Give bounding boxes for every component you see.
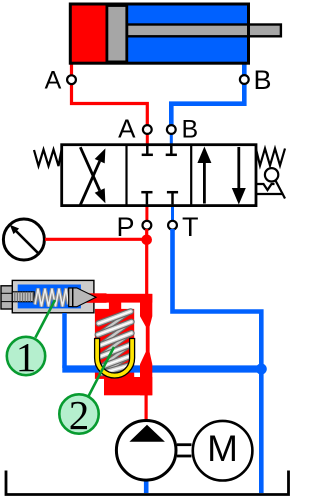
valve body 4/3: [62, 145, 256, 206]
right box arrow down: [232, 147, 246, 205]
wire B cylinder to valve (blue): [171, 64, 244, 127]
cartridge spring (1): [35, 289, 69, 307]
leader line 2 (green): [89, 347, 114, 396]
valve port A circle: [143, 125, 152, 134]
spring right: [256, 149, 285, 166]
left box crossed arrow up: [80, 148, 105, 205]
middle box blocked port A: [142, 146, 153, 155]
valve P stub (red): [145, 205, 148, 222]
valve port P circle: [143, 221, 152, 230]
middle box blocked port B: [166, 146, 177, 155]
svg-text:1: 1: [16, 334, 37, 380]
pressure gauge: [3, 219, 44, 260]
junction node P (red dot): [141, 235, 152, 246]
svg-text:A: A: [118, 113, 136, 143]
svg-text:T: T: [182, 212, 199, 242]
tank: [6, 471, 289, 495]
cylinder outline: [70, 4, 248, 63]
relief valve body: top bar: [91, 294, 152, 303]
leader line 1 (green): [35, 300, 55, 338]
relief cartridge housing (1): [12, 280, 94, 312]
pump suction line (blue): [144, 478, 149, 493]
poppet cone: [73, 288, 96, 307]
svg-text:M: M: [207, 428, 238, 469]
relief seat passage (red): [82, 293, 107, 303]
svg-text:P: P: [116, 212, 134, 242]
pump P1: [116, 421, 176, 481]
main spring (2): [98, 311, 132, 373]
hex adjustment head: [1, 286, 12, 309]
middle box blocked port T: [167, 192, 178, 204]
right box arrow up: [197, 147, 211, 204]
relief valve body: bottom bar: [104, 377, 152, 395]
port B circle (cylinder): [240, 75, 249, 84]
junction node tank line (blue dot): [256, 364, 267, 375]
left box crossed arrow down: [80, 147, 105, 203]
valve port B circle: [167, 125, 176, 134]
tank return line (blue thick): [62, 365, 261, 372]
venturi channel (red, over blue): [140, 294, 152, 395]
roller lever actuator: [257, 168, 285, 198]
wire P to relief body (red): [145, 229, 148, 296]
valve divider left: [125, 145, 127, 206]
cylinder red chamber: [70, 4, 107, 63]
relief valve body: spring chamber: [95, 309, 134, 379]
wire A cylinder to valve (red): [72, 64, 148, 127]
relief valve body: neck: [109, 295, 121, 310]
balloon label 2: [59, 392, 98, 438]
drain line (blue): [62, 313, 67, 368]
piston rod: [127, 25, 281, 37]
svg-text:B: B: [253, 65, 271, 95]
middle box blocked port P: [141, 192, 152, 204]
washer: [69, 288, 73, 307]
cylinder body: [70, 4, 281, 63]
svg-text:2: 2: [69, 392, 90, 438]
piston: [107, 6, 127, 62]
threaded rod: [12, 292, 34, 302]
spring left: [34, 149, 62, 166]
coupling: [177, 445, 192, 456]
valve T stub (blue): [171, 205, 174, 222]
wire T to tank (blue): [173, 229, 262, 493]
svg-text:A: A: [45, 67, 62, 95]
wire body to pump (red): [145, 395, 148, 420]
valve port T circle: [168, 221, 177, 230]
poppet cup (yellow, 2): [95, 339, 135, 379]
valve port B stub (blue): [170, 133, 173, 146]
valve divider right: [190, 145, 192, 206]
port A circle (cylinder): [67, 75, 76, 84]
svg-text:B: B: [181, 115, 198, 143]
gauge line (red): [45, 238, 147, 241]
valve port A stub (red): [146, 133, 149, 146]
cylinder blue chamber: [127, 4, 249, 63]
motor M1: [193, 421, 253, 481]
balloon label 1: [7, 334, 45, 380]
